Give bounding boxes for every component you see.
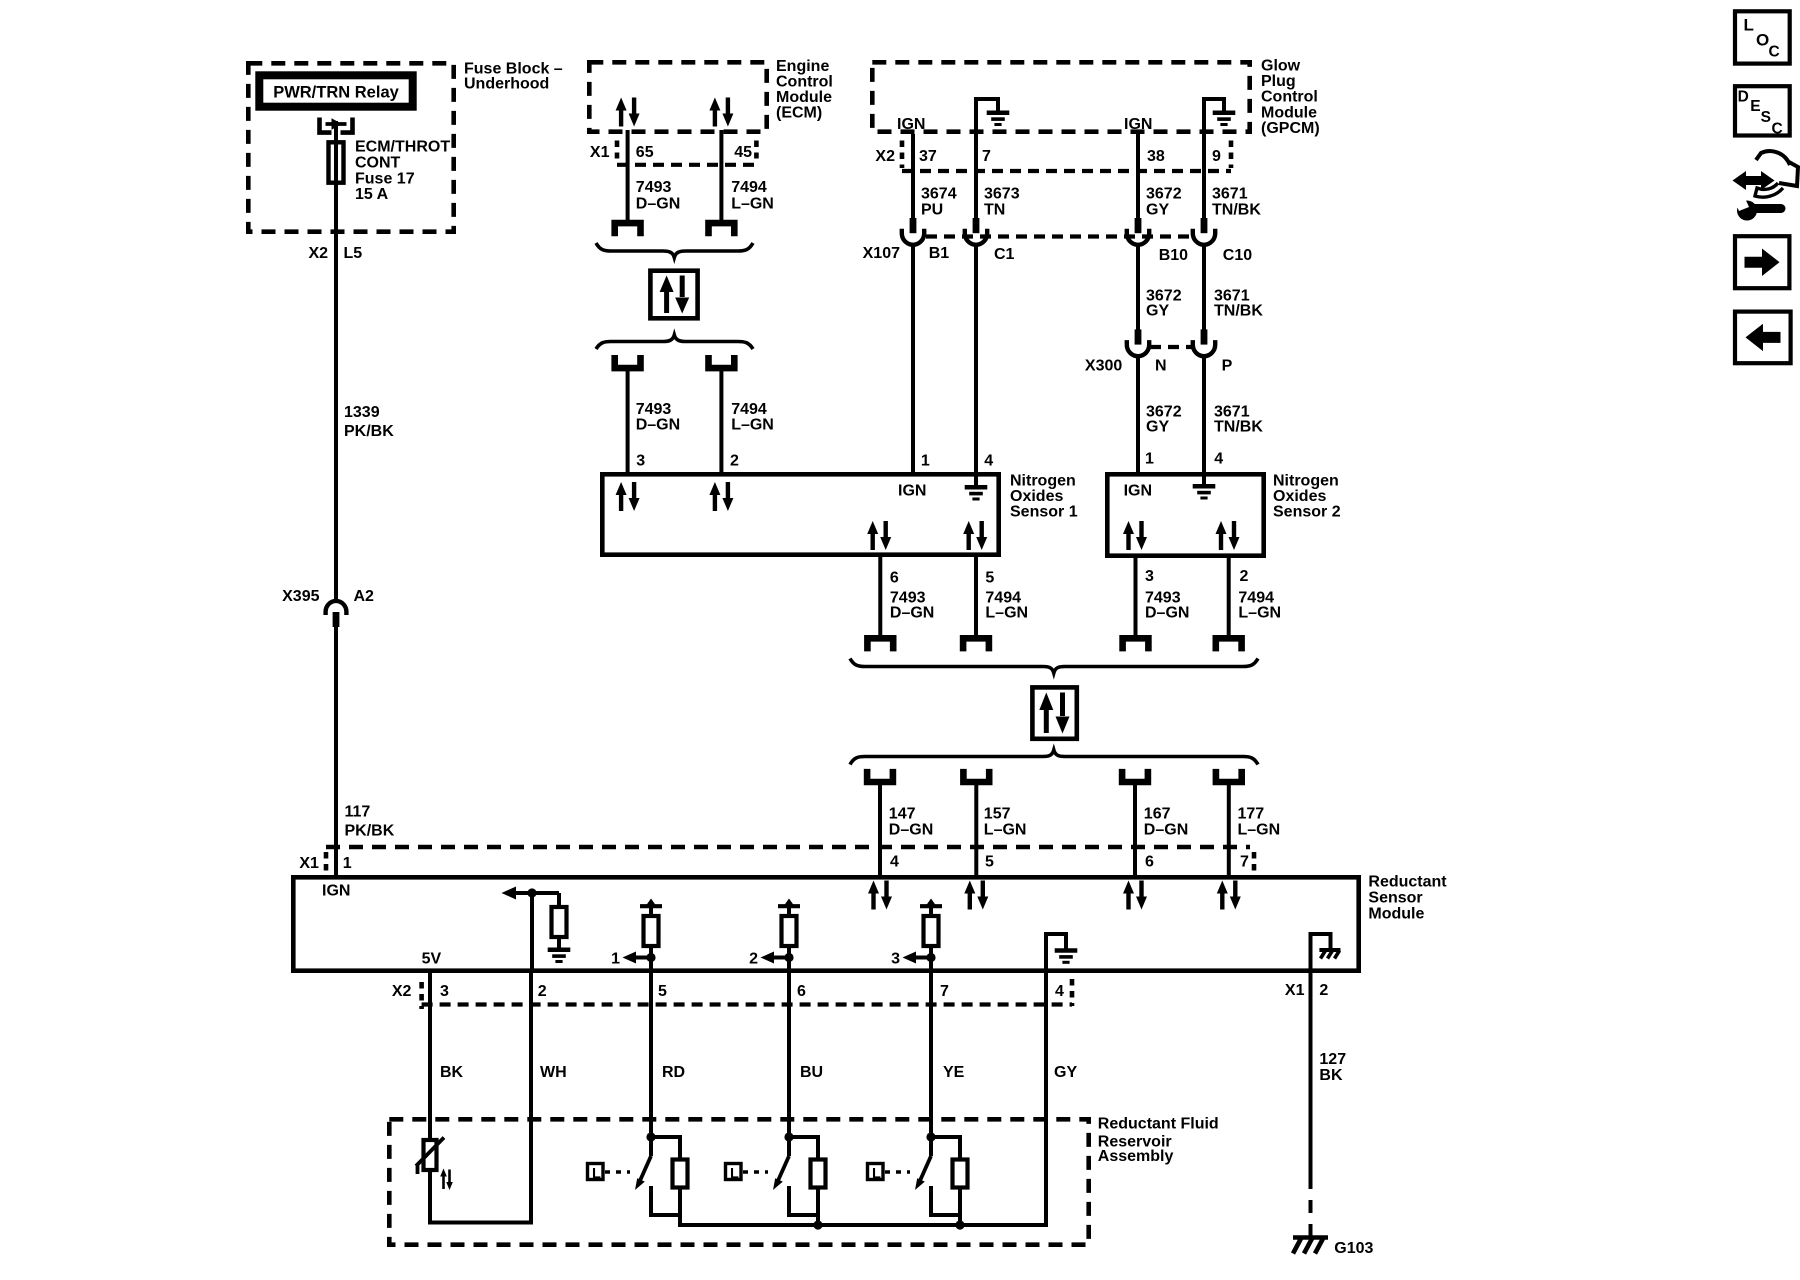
relay K? PWR/TRN Relay box (259, 75, 412, 106)
harness terminal lower left (615, 355, 641, 368)
svg-text:IGN: IGN (1124, 116, 1152, 133)
connector X300 P (1193, 329, 1215, 356)
svg-text:D–GN: D–GN (636, 196, 680, 213)
svg-text:5: 5 (985, 570, 994, 587)
svg-text:C10: C10 (1223, 247, 1252, 264)
svg-text:Engine: Engine (776, 58, 829, 75)
reductant sensor module box (293, 877, 1358, 970)
level switch 2 (BU) (726, 1132, 826, 1229)
module pull-up output 2 (pin 6 BU) (749, 899, 800, 974)
X1 row left separator (324, 852, 329, 872)
svg-text:167: 167 (1144, 806, 1171, 823)
svg-text:B1: B1 (929, 245, 950, 262)
svg-text:TN/BK: TN/BK (1212, 202, 1261, 219)
wire GPCM 7 to X107 C1 (974, 134, 978, 218)
svg-text:3672: 3672 (1146, 186, 1182, 203)
level switch 3 (YE) (868, 1132, 968, 1229)
svg-text:Sensor 1: Sensor 1 (1010, 504, 1078, 521)
svg-text:X1: X1 (299, 855, 319, 872)
connector navigation icon (double arrow, curved arrow outline, wrench) (1733, 151, 1799, 220)
svg-text:C: C (1769, 44, 1780, 61)
svg-text:N: N (1155, 358, 1167, 375)
svg-text:Oxides: Oxides (1010, 488, 1063, 505)
wire X300 N to NOx2 pin1 (1136, 356, 1140, 472)
fuse F17 ECM/THROT CONT body (329, 142, 344, 182)
module X2 connector row (392, 979, 1072, 1009)
svg-text:D–GN: D–GN (636, 417, 680, 434)
wire GPCM 9 to X107 C10 (1202, 134, 1206, 218)
svg-text:6: 6 (1145, 854, 1154, 871)
svg-text:5: 5 (985, 854, 994, 871)
GPCM internal ground right (1204, 99, 1235, 134)
svg-text:RD: RD (662, 1064, 685, 1081)
svg-text:L–GN: L–GN (984, 822, 1027, 839)
module frame ground (X1 pin 2) (1311, 934, 1341, 973)
NOx1 arrows pin 6 (867, 521, 891, 550)
svg-text:BK: BK (440, 1064, 464, 1081)
svg-text:X395: X395 (282, 588, 319, 605)
GPCM connector row X2 (875, 141, 1231, 172)
svg-text:38: 38 (1147, 148, 1165, 165)
harness terminal m-6 (1122, 769, 1148, 782)
harness terminal m-5 (963, 769, 989, 782)
svg-text:WH: WH (540, 1064, 567, 1081)
svg-text:YE: YE (943, 1064, 965, 1081)
svg-text:7493: 7493 (636, 179, 672, 196)
svg-text:2: 2 (730, 453, 739, 470)
harness terminal pin 45 side (709, 223, 735, 236)
svg-text:Reductant Fluid: Reductant Fluid (1098, 1116, 1219, 1133)
svg-text:3: 3 (891, 951, 900, 968)
svg-text:L5: L5 (344, 245, 363, 262)
module pull-up output 3 (pin 7 YE) (891, 899, 942, 974)
svg-text:Oxides: Oxides (1273, 488, 1326, 505)
svg-text:7493: 7493 (636, 401, 672, 418)
wire to NOx1 pin 2 (719, 371, 723, 472)
GPCM internal ground left (976, 99, 1009, 134)
module arrows pin 7 (1217, 881, 1241, 910)
ECM signal arrows pin 65 (616, 98, 640, 127)
back arrow button box (1735, 312, 1791, 364)
svg-text:7494: 7494 (731, 401, 767, 418)
LOC button box (1735, 11, 1790, 63)
inline harness connector symbol (arrows in box) lower (1032, 687, 1076, 738)
NOx2 arrows pin 3 (1123, 521, 1147, 550)
wire BU to level switch 2 (787, 973, 791, 1137)
svg-text:S: S (1761, 109, 1771, 126)
nitrogen oxides sensor 1 box (602, 474, 998, 554)
wire NOx1 pin6 down (878, 557, 882, 638)
svg-text:D–GN: D–GN (890, 605, 934, 622)
svg-text:Nitrogen: Nitrogen (1010, 473, 1076, 490)
svg-text:E: E (1750, 98, 1760, 115)
engine control module ECM dashed box (589, 62, 766, 131)
svg-text:BU: BU (800, 1064, 823, 1081)
svg-text:15 A: 15 A (355, 186, 389, 203)
X300 connector dashed tie line (1150, 345, 1192, 349)
wire YE to level switch 3 (929, 973, 933, 1137)
svg-text:L–GN: L–GN (1238, 605, 1281, 622)
svg-text:D–GN: D–GN (1144, 822, 1188, 839)
svg-text:X2: X2 (392, 983, 412, 1000)
svg-text:D: D (1738, 89, 1749, 106)
svg-text:TN: TN (984, 202, 1005, 219)
fuse block underhood dashed box (248, 63, 453, 231)
wire terminal to module pin6 (1133, 785, 1137, 875)
module pull-up output 1 (pin 5 RD) (611, 899, 662, 974)
brace above lower ECM terminals (596, 335, 753, 349)
svg-text:3674: 3674 (921, 186, 957, 203)
svg-text:2: 2 (749, 951, 758, 968)
glow plug control module GPCM dashed box (872, 62, 1249, 131)
svg-text:X1: X1 (590, 144, 610, 161)
svg-text:GY: GY (1054, 1064, 1077, 1081)
svg-text:IGN: IGN (897, 116, 925, 133)
NOx1 internal ground (965, 474, 988, 499)
svg-text:Glow: Glow (1261, 57, 1301, 74)
connector X107 B10 (1127, 218, 1149, 245)
svg-text:X300: X300 (1085, 358, 1122, 375)
svg-text:B10: B10 (1159, 247, 1188, 264)
svg-text:3673: 3673 (984, 186, 1020, 203)
svg-text:G103: G103 (1334, 1240, 1373, 1257)
svg-text:4: 4 (890, 854, 899, 871)
svg-text:GY: GY (1146, 303, 1169, 320)
svg-text:7494: 7494 (731, 179, 767, 196)
ECM connector row X1 (590, 141, 756, 165)
svg-text:TN/BK: TN/BK (1214, 303, 1263, 320)
forward arrow button box (1735, 236, 1789, 288)
reductant fluid reservoir assembly dashed box (389, 1119, 1088, 1244)
svg-text:L–GN: L–GN (731, 196, 774, 213)
svg-text:6: 6 (890, 570, 899, 587)
svg-text:Control: Control (1261, 89, 1318, 106)
svg-text:7: 7 (940, 983, 949, 1000)
svg-text:127: 127 (1319, 1051, 1346, 1068)
module arrows pin 5 (964, 881, 988, 910)
svg-text:Assembly: Assembly (1098, 1148, 1174, 1165)
wire GY to reservoir bus (678, 973, 1046, 1225)
connector X300 N (1127, 329, 1149, 356)
wire GPCM 38 to X107 B10 (1136, 134, 1140, 218)
svg-text:PK/BK: PK/BK (345, 823, 395, 840)
svg-text:L: L (872, 1166, 881, 1182)
wire ECM pin 45 to ring terminal (719, 130, 723, 221)
wire to NOx1 pin 3 (626, 371, 630, 472)
svg-text:3: 3 (440, 983, 449, 1000)
wire NOx2 pin2 down (1227, 557, 1231, 638)
svg-text:6: 6 (797, 983, 806, 1000)
svg-text:Underhood: Underhood (464, 76, 549, 93)
svg-text:Module: Module (1261, 104, 1317, 121)
relay output arrow (326, 122, 347, 126)
NOx2 arrows pin 2 (1216, 521, 1240, 550)
ECM signal arrows pin 45 (709, 98, 733, 127)
svg-text:L–GN: L–GN (731, 417, 774, 434)
svg-text:PWR/TRN Relay: PWR/TRN Relay (273, 84, 399, 102)
wire NOx1 pin5 down (974, 557, 978, 638)
svg-text:3: 3 (636, 453, 645, 470)
svg-text:A2: A2 (354, 588, 375, 605)
svg-text:Control: Control (776, 73, 833, 90)
svg-text:177: 177 (1238, 806, 1265, 823)
wire RD to level switch 1 (649, 973, 653, 1137)
svg-text:O: O (1756, 30, 1769, 49)
svg-text:L–GN: L–GN (985, 605, 1028, 622)
harness terminal lower right (709, 355, 735, 368)
svg-text:CONT: CONT (355, 155, 401, 172)
svg-text:7: 7 (982, 148, 991, 165)
module 5V regulator branch (422, 887, 571, 974)
module internal ground (pin 4 GY) (1046, 934, 1077, 973)
NOx2 internal ground (1193, 474, 1216, 498)
harness terminal s2-2 (1216, 638, 1242, 651)
wire terminal to module pin7 (1227, 785, 1231, 875)
svg-text:157: 157 (984, 806, 1011, 823)
svg-text:1339: 1339 (344, 404, 380, 421)
svg-text:147: 147 (889, 806, 916, 823)
svg-text:PK/BK: PK/BK (344, 423, 394, 440)
wire terminal to module pin4 (878, 785, 882, 875)
svg-text:1: 1 (343, 855, 352, 872)
NOx1 arrows pin 2 (709, 482, 733, 511)
svg-text:GY: GY (1146, 202, 1169, 219)
wire GPCM 37 to X107 B1 (911, 134, 915, 218)
svg-text:P: P (1222, 358, 1233, 375)
svg-text:Nitrogen: Nitrogen (1273, 473, 1339, 490)
svg-text:L: L (1744, 16, 1754, 35)
wire X107 C1 to NOx1 pin4 (974, 245, 978, 473)
brace above module terminals (850, 750, 1258, 765)
NOx1 arrows pin 5 (963, 521, 987, 550)
svg-text:L–GN: L–GN (1238, 822, 1281, 839)
svg-text:2: 2 (1319, 982, 1328, 999)
svg-text:IGN: IGN (322, 883, 350, 900)
svg-text:TN/BK: TN/BK (1214, 419, 1263, 436)
svg-text:4: 4 (984, 453, 993, 470)
svg-text:C1: C1 (994, 246, 1015, 263)
svg-text:5: 5 (658, 983, 667, 1000)
svg-text:X107: X107 (863, 245, 900, 262)
brace under ECM terminals (596, 243, 753, 258)
DESC button box (1735, 86, 1790, 137)
connector X107 B1 (902, 218, 924, 245)
svg-text:IGN: IGN (1124, 483, 1152, 500)
NOx1 arrows pin 3 (616, 482, 640, 511)
svg-text:IGN: IGN (898, 483, 926, 500)
thermistor (fluid temperature sensor) (416, 1138, 453, 1191)
wire terminal to module pin5 (974, 785, 978, 875)
harness terminal m-4 (867, 769, 893, 782)
harness terminal s1-6 (867, 638, 893, 651)
svg-text:7: 7 (1240, 854, 1249, 871)
harness terminal pin 65 side (615, 223, 641, 236)
svg-text:37: 37 (919, 148, 937, 165)
svg-text:X1: X1 (1285, 982, 1305, 999)
inline connector X395 A2 (326, 601, 347, 627)
ground G103 (1293, 1238, 1374, 1258)
X1 row right separator (1252, 852, 1257, 871)
dashed wire to G103 (1309, 1176, 1313, 1236)
wire X107 B1 to NOx1 pin1 (911, 245, 915, 473)
svg-text:BK: BK (1319, 1067, 1343, 1084)
svg-text:L: L (592, 1166, 601, 1182)
svg-text:65: 65 (636, 144, 654, 161)
svg-text:Sensor 2: Sensor 2 (1273, 504, 1341, 521)
svg-text:Plug: Plug (1261, 73, 1296, 90)
inline harness connector symbol (arrows in box) (650, 271, 697, 319)
svg-text:2: 2 (1240, 568, 1249, 585)
svg-text:9: 9 (1212, 148, 1221, 165)
wire X300 P to NOx2 pin4 (1202, 356, 1206, 472)
wire from X395 to module (334, 626, 338, 875)
svg-text:4: 4 (1055, 983, 1064, 1000)
wire BK loop through thermistor to WH (430, 973, 531, 1223)
svg-text:3: 3 (1145, 568, 1154, 585)
svg-text:C: C (1772, 120, 1783, 137)
brace under sensor terminals (850, 659, 1258, 674)
svg-text:5V: 5V (422, 951, 442, 968)
X107 connector dashed tie line (926, 234, 1192, 238)
wire X107 B10 to X300 N (1136, 245, 1140, 331)
connector X107 C1 (965, 218, 987, 245)
svg-text:Module: Module (776, 89, 832, 106)
wire X107 C10 to X300 P (1202, 245, 1206, 331)
svg-text:(GPCM): (GPCM) (1261, 120, 1320, 137)
svg-text:2: 2 (538, 983, 547, 1000)
svg-text:117: 117 (345, 804, 371, 821)
svg-text:1: 1 (611, 951, 620, 968)
svg-text:(ECM): (ECM) (776, 105, 822, 122)
svg-text:3671: 3671 (1212, 186, 1248, 203)
svg-text:L: L (730, 1166, 739, 1182)
svg-text:1: 1 (1145, 451, 1154, 468)
harness terminal m-7 (1216, 769, 1242, 782)
relay output terminal brackets (320, 118, 332, 133)
svg-text:X2: X2 (309, 245, 329, 262)
connector X107 C10 (1193, 218, 1215, 245)
wire ECM pin 65 to ring terminal (626, 130, 630, 221)
wire 127 BK from module X1-2 (1309, 973, 1313, 1176)
module arrows pin 6 (1123, 881, 1147, 910)
svg-text:Module: Module (1368, 906, 1424, 923)
nitrogen oxides sensor 2 box (1107, 474, 1263, 555)
svg-text:4: 4 (1214, 451, 1223, 468)
module X1 connector dashed row line (326, 845, 1250, 850)
svg-text:D–GN: D–GN (1145, 605, 1189, 622)
svg-text:ECM/THROT: ECM/THROT (355, 139, 450, 156)
svg-text:GY: GY (1146, 419, 1169, 436)
svg-text:PU: PU (921, 202, 943, 219)
harness terminal s2-3 (1123, 638, 1149, 651)
harness terminal s1-5 (963, 638, 989, 651)
wire NOx2 pin3 down (1134, 557, 1138, 638)
level switch 1 (RD) (588, 1132, 688, 1225)
svg-text:Sensor: Sensor (1368, 890, 1422, 907)
svg-text:1: 1 (921, 453, 930, 470)
module arrows pin 4 (868, 881, 892, 910)
svg-text:45: 45 (734, 144, 752, 161)
svg-text:D–GN: D–GN (889, 822, 933, 839)
svg-text:Reductant: Reductant (1368, 874, 1447, 891)
wire from relay through fuse to X395 (334, 121, 338, 600)
svg-text:X2: X2 (875, 148, 895, 165)
